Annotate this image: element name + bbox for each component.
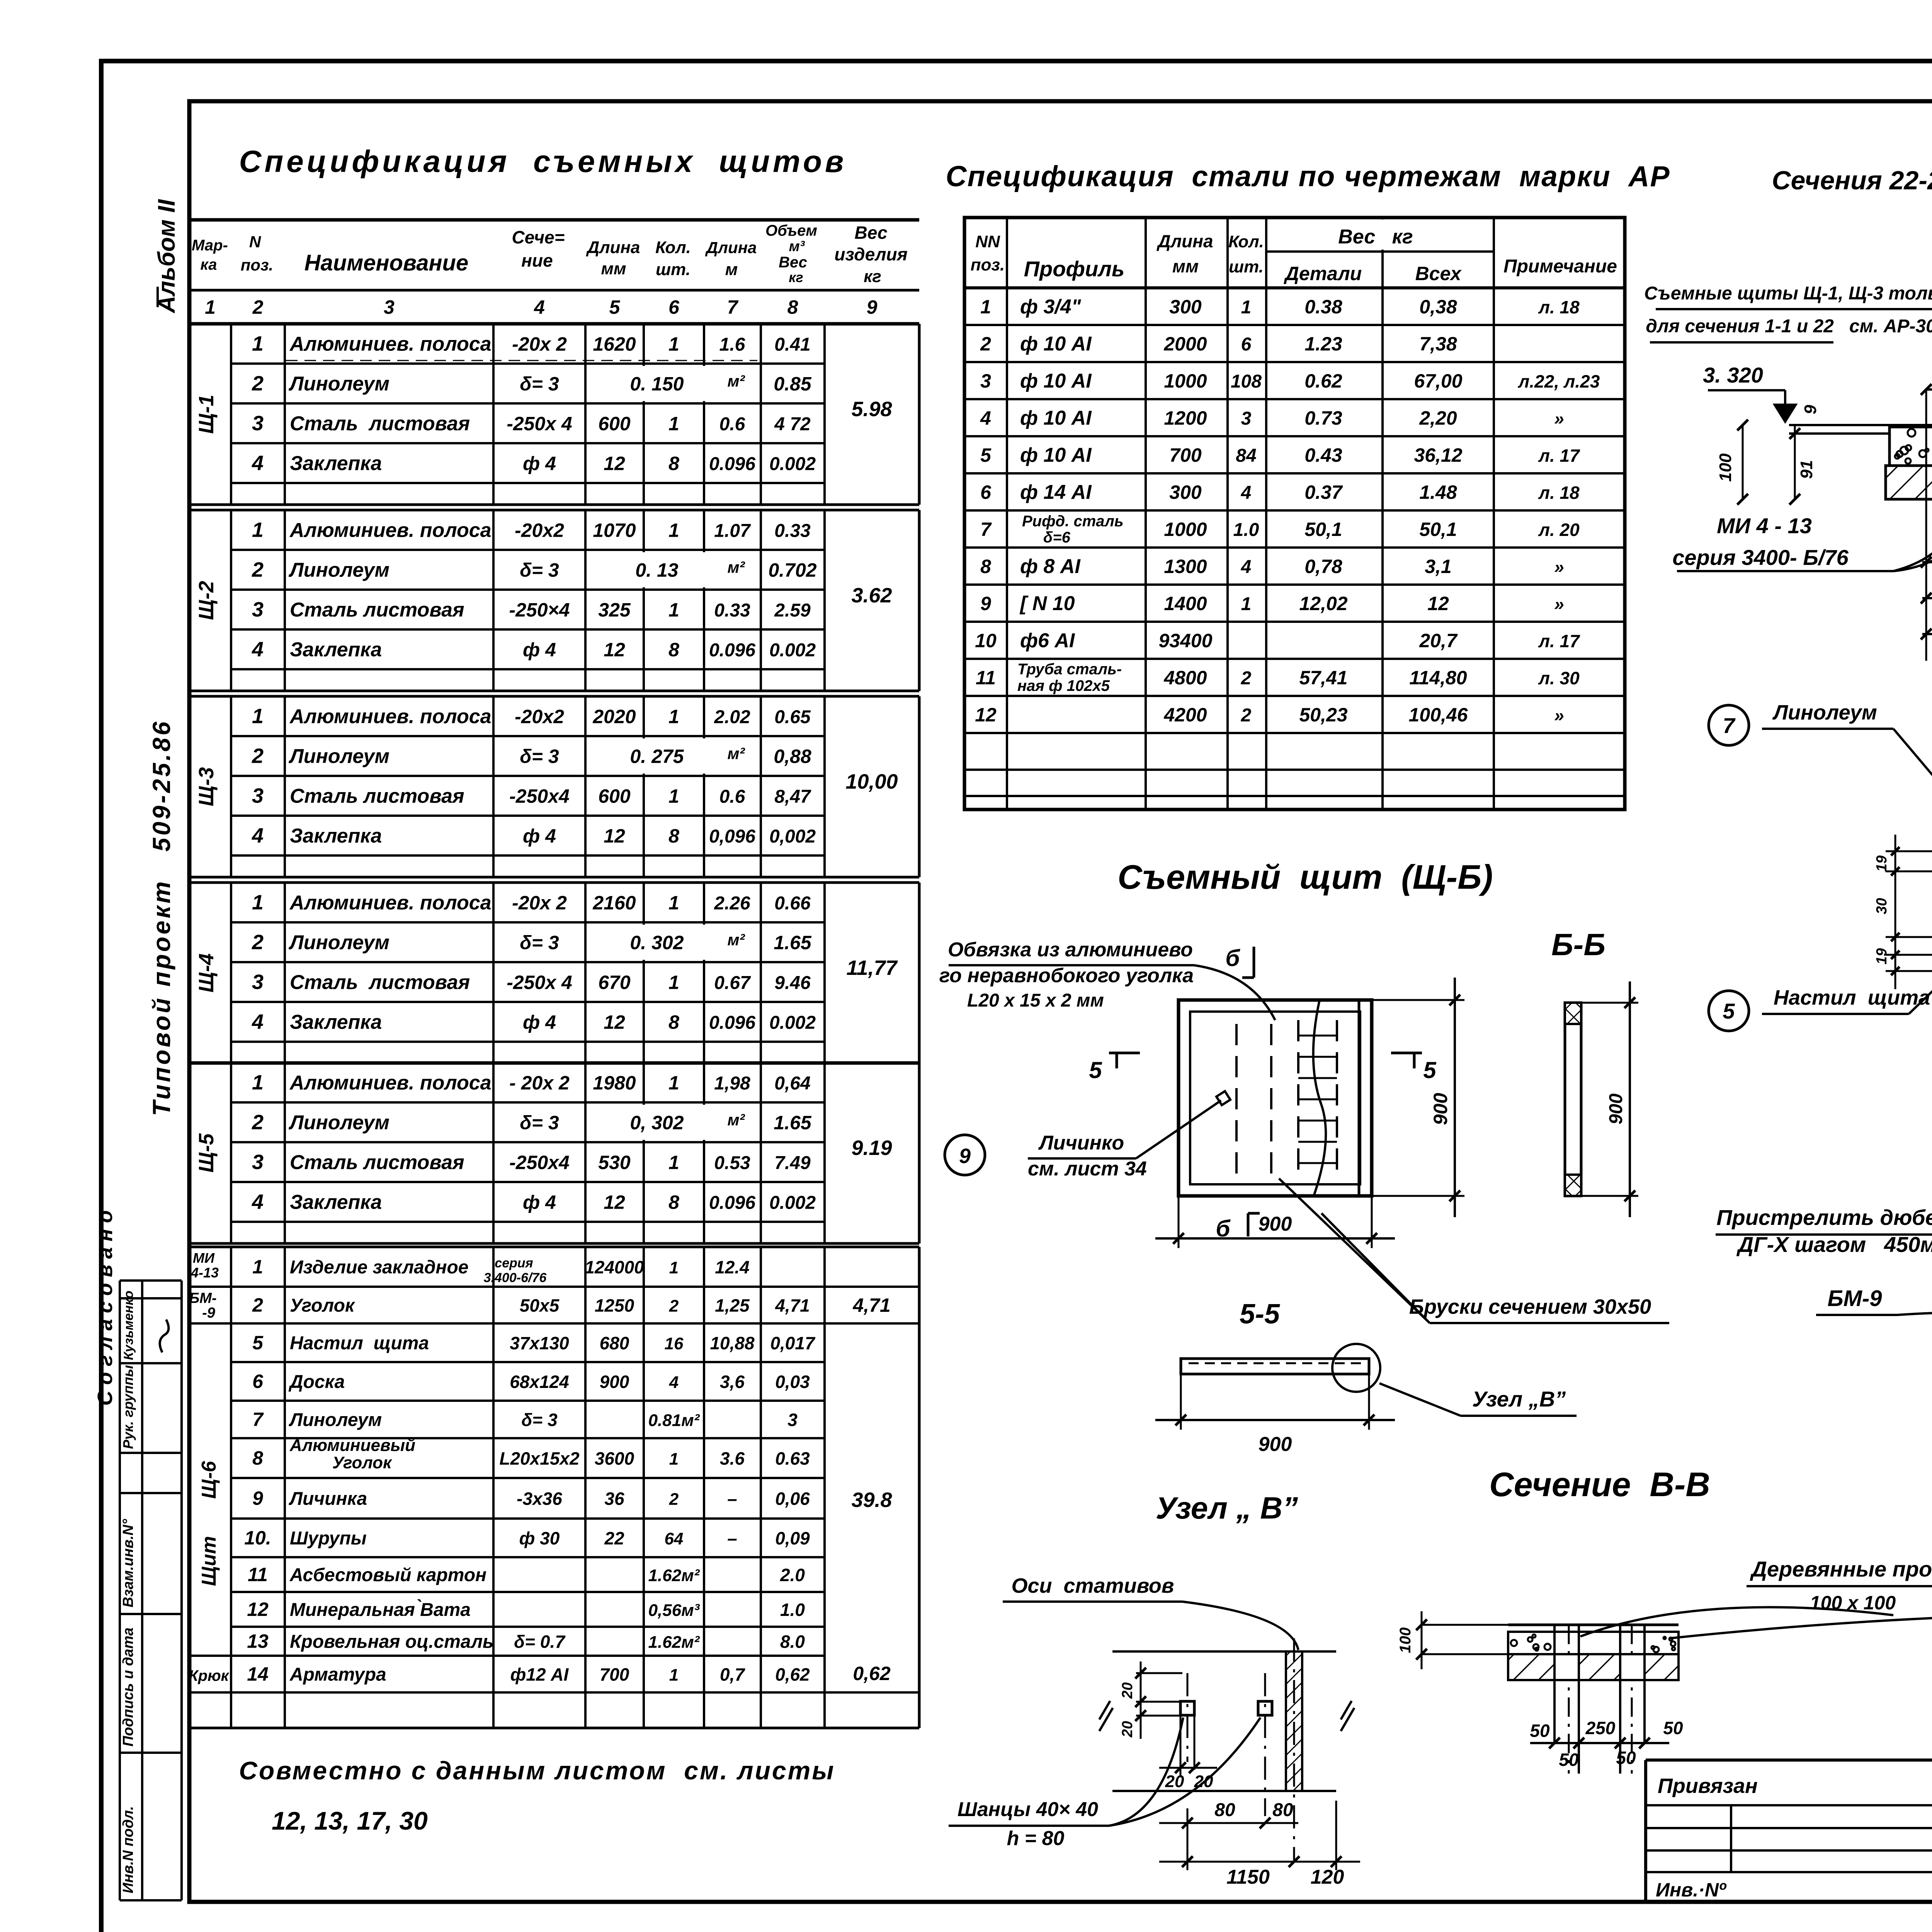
svg-text:1: 1	[668, 520, 679, 541]
svg-text:–: –	[727, 1528, 737, 1548]
svg-text:Сече=: Сече=	[512, 227, 565, 247]
svg-text:Спецификация съемных щитов: Спецификация съемных щитов	[239, 144, 847, 179]
svg-text:1150: 1150	[1226, 1866, 1270, 1888]
svg-text:0. 275: 0. 275	[630, 746, 684, 767]
svg-text:5: 5	[1089, 1057, 1102, 1083]
svg-text:Съемный щит (Щ-Б): Съемный щит (Щ-Б)	[1117, 858, 1493, 896]
svg-text:-250х 4: -250х 4	[507, 972, 572, 993]
svg-text:5: 5	[609, 296, 621, 318]
svg-text:1: 1	[980, 296, 991, 318]
svg-text:2: 2	[252, 931, 264, 954]
svg-text:1.0: 1.0	[780, 1600, 805, 1620]
svg-text:-20х 2: -20х 2	[512, 333, 567, 355]
svg-text:250: 250	[1585, 1718, 1616, 1738]
svg-text:1: 1	[669, 1666, 679, 1685]
svg-text:2: 2	[252, 1111, 264, 1134]
svg-text:1: 1	[668, 1072, 679, 1094]
svg-text:10.: 10.	[244, 1527, 271, 1549]
оси стативов drawing	[949, 1574, 1360, 1888]
svg-text:900: 900	[600, 1372, 629, 1392]
svg-text:100,46: 100,46	[1409, 704, 1468, 726]
svg-text:1: 1	[668, 413, 679, 435]
svg-text:100: 100	[1716, 453, 1735, 482]
svg-text:ф 10 АI: ф 10 АI	[1020, 407, 1092, 429]
svg-text:300: 300	[1169, 296, 1202, 318]
svg-text:9: 9	[867, 296, 878, 318]
svg-text:б: б	[1225, 945, 1240, 971]
svg-text:2: 2	[252, 372, 264, 395]
svg-text:0.41: 0.41	[774, 335, 810, 355]
svg-text:1: 1	[668, 786, 679, 807]
table block Щ-4	[231, 921, 825, 923]
svg-text:7.49: 7.49	[774, 1153, 811, 1173]
margin stamp boxes	[120, 1279, 182, 1282]
svg-text:м²: м²	[727, 931, 745, 949]
svg-text:1.07: 1.07	[714, 521, 751, 541]
svg-text:1070: 1070	[593, 520, 636, 541]
svg-text:3: 3	[1241, 408, 1252, 429]
svg-text:л.22, л.23: л.22, л.23	[1518, 371, 1600, 391]
svg-text:8: 8	[980, 556, 991, 577]
svg-text:ф 14 АI: ф 14 АI	[1020, 481, 1092, 503]
svg-text:Настил щита: Настил щита	[290, 1333, 429, 1354]
svg-text:12: 12	[247, 1599, 269, 1620]
svg-text:600: 600	[598, 786, 631, 807]
svg-text:Вес: Вес	[855, 223, 888, 243]
svg-text:900: 900	[1259, 1213, 1292, 1235]
svg-text:см. лист 34: см. лист 34	[1028, 1158, 1147, 1180]
svg-text:Наименование: Наименование	[304, 250, 468, 276]
section 22-22 drawing	[1644, 283, 1932, 661]
svg-text:0.096: 0.096	[709, 1193, 755, 1213]
svg-text:шт.: шт.	[1229, 257, 1264, 276]
svg-text:0,017: 0,017	[770, 1333, 816, 1353]
svg-text:36,12: 36,12	[1414, 444, 1462, 466]
svg-text:1.65: 1.65	[774, 932, 812, 954]
svg-text:Деревянные пробки: Деревянные пробки	[1750, 1557, 1932, 1581]
svg-text:δ= 3: δ= 3	[520, 746, 559, 767]
svg-text:8: 8	[252, 1447, 263, 1469]
svg-text:12: 12	[604, 1012, 625, 1033]
svg-text:124000: 124000	[585, 1257, 644, 1277]
svg-text:6: 6	[980, 481, 992, 503]
svg-text:м²: м²	[727, 745, 745, 763]
svg-text:Объем: Объем	[765, 222, 817, 239]
svg-text:700: 700	[600, 1665, 629, 1685]
svg-text:0.33: 0.33	[774, 521, 811, 541]
svg-text:Пристрелить дюбелями: Пристрелить дюбелями	[1716, 1205, 1932, 1230]
svg-text:0,56м³: 0,56м³	[648, 1601, 700, 1620]
svg-text:50,1: 50,1	[1419, 519, 1457, 540]
svg-text:Профиль: Профиль	[1024, 257, 1125, 281]
svg-text:3: 3	[980, 370, 991, 392]
svg-text:Инв.N подл.: Инв.N подл.	[120, 1806, 136, 1893]
svg-text:Рук. группы: Рук. группы	[120, 1365, 136, 1449]
svg-text:0,06: 0,06	[775, 1489, 810, 1509]
svg-text:Линолеум: Линолеум	[288, 745, 389, 768]
svg-text:4: 4	[1241, 483, 1252, 503]
svg-text:2.0: 2.0	[780, 1565, 805, 1585]
svg-text:20: 20	[1165, 1772, 1184, 1791]
svg-text:кг: кг	[864, 267, 881, 286]
table block Щ-2	[231, 549, 825, 551]
svg-text:50: 50	[1559, 1750, 1579, 1770]
svg-text:50: 50	[1663, 1718, 1683, 1738]
table block Щ-5	[231, 1101, 825, 1104]
svg-text:1: 1	[252, 891, 264, 914]
svg-text:Бруски сечением 30х50: Бруски сечением 30х50	[1409, 1295, 1651, 1318]
svg-text:600: 600	[598, 413, 631, 435]
svg-text:δ=6: δ=6	[1043, 529, 1071, 546]
svg-text:67,00: 67,00	[1414, 370, 1462, 392]
svg-text:мм: мм	[1172, 256, 1199, 276]
svg-text:2: 2	[252, 1294, 263, 1316]
svg-text:3: 3	[252, 784, 264, 808]
svg-text:»: »	[1554, 594, 1564, 614]
svg-text:кг: кг	[789, 269, 803, 285]
svg-text:Типовой проект 509-25.86: Типовой проект 509-25.86	[148, 719, 175, 1116]
svg-text:Заклепка: Заклепка	[290, 1011, 382, 1034]
svg-text:1: 1	[1241, 297, 1252, 318]
svg-text:2.26: 2.26	[714, 893, 750, 914]
svg-text:МИ 4 - 13: МИ 4 - 13	[1717, 514, 1812, 538]
svg-text:16: 16	[665, 1334, 684, 1353]
svg-text:Сечение В-В: Сечение В-В	[1489, 1465, 1710, 1503]
svg-text:3: 3	[252, 971, 264, 994]
svg-text:4: 4	[252, 1190, 264, 1214]
svg-text:0,09: 0,09	[775, 1528, 810, 1548]
svg-text:0.67: 0.67	[714, 973, 751, 993]
svg-text:3600: 3600	[595, 1449, 634, 1469]
svg-text:1.23: 1.23	[1304, 333, 1342, 355]
svg-text:Алюминиев. полоса: Алюминиев. полоса	[289, 519, 492, 542]
svg-text:4: 4	[534, 296, 545, 318]
svg-text:Заклепка: Заклепка	[290, 639, 382, 661]
svg-text:ф6 АI: ф6 АI	[1020, 629, 1075, 652]
svg-text:Алюминиев. полоса: Алюминиев. полоса	[289, 892, 492, 914]
svg-text:ф 10 АI: ф 10 АI	[1020, 444, 1092, 466]
svg-text:Щ-2: Щ-2	[195, 581, 218, 620]
svg-text:530: 530	[598, 1152, 631, 1173]
svg-text:0,03: 0,03	[775, 1372, 810, 1392]
svg-text:1,25: 1,25	[715, 1296, 750, 1316]
svg-text:Вес кг: Вес кг	[1338, 226, 1413, 248]
table block Щ-3	[231, 735, 825, 737]
svg-text:L20 х 15 х 2 мм: L20 х 15 х 2 мм	[967, 990, 1104, 1011]
svg-text:93400: 93400	[1158, 630, 1212, 651]
svg-text:3: 3	[384, 296, 395, 318]
svg-text:Арматура: Арматура	[289, 1665, 386, 1685]
svg-text:Уголок: Уголок	[290, 1296, 355, 1316]
svg-text:3.6: 3.6	[720, 1449, 745, 1469]
svg-text:5: 5	[252, 1332, 264, 1354]
svg-text:1.48: 1.48	[1419, 481, 1457, 503]
svg-text:30: 30	[1874, 898, 1890, 914]
svg-text:8: 8	[668, 825, 679, 847]
svg-text:для сечения 1-1 и 22 см. АР-: для сечения 1-1 и 22 см. АР-30	[1646, 316, 1932, 337]
svg-text:ние: ние	[521, 250, 553, 270]
svg-text:50: 50	[1530, 1721, 1550, 1741]
svg-text:Заклепка: Заклепка	[290, 452, 382, 475]
svg-text:5: 5	[980, 444, 992, 466]
svg-text:12: 12	[975, 704, 997, 726]
svg-text:8.0: 8.0	[780, 1632, 805, 1652]
svg-text:Алюминиев. полоса: Алюминиев. полоса	[289, 333, 492, 355]
svg-text:поз.: поз.	[971, 255, 1005, 274]
svg-text:ф 4: ф 4	[523, 825, 556, 847]
svg-text:4,71: 4,71	[852, 1294, 890, 1316]
svg-text:1000: 1000	[1164, 370, 1207, 392]
svg-text:84: 84	[1236, 446, 1256, 466]
svg-text:36: 36	[604, 1489, 624, 1509]
svg-text:0,78: 0,78	[1304, 556, 1342, 577]
svg-text:2,20: 2,20	[1419, 407, 1457, 429]
svg-text:11,77: 11,77	[846, 956, 898, 980]
svg-text:1400: 1400	[1164, 593, 1207, 614]
svg-text:Изделие закладное: Изделие закладное	[290, 1257, 469, 1278]
svg-text:0.37: 0.37	[1304, 481, 1343, 503]
svg-text:0. 302: 0. 302	[630, 932, 684, 954]
svg-text:12: 12	[1427, 593, 1449, 614]
svg-text:0,88: 0,88	[774, 746, 811, 767]
svg-text:0.002: 0.002	[769, 640, 816, 661]
svg-text:0,002: 0,002	[769, 827, 816, 847]
svg-text:57,41: 57,41	[1299, 667, 1347, 689]
svg-text:1.6: 1.6	[719, 335, 745, 355]
svg-text:ДГ-Х шагом 450мм: ДГ-Х шагом 450мм	[1736, 1232, 1932, 1257]
svg-text:80: 80	[1272, 1800, 1293, 1820]
svg-text:20,7: 20,7	[1419, 630, 1458, 651]
svg-text:20: 20	[1119, 1721, 1136, 1738]
svg-text:Сталь листовая: Сталь листовая	[290, 413, 470, 435]
svg-text:л. 18: л. 18	[1538, 297, 1580, 317]
svg-text:12,02: 12,02	[1299, 593, 1347, 614]
svg-text:1200: 1200	[1164, 407, 1207, 429]
svg-text:Асбестовый картон: Асбестовый картон	[289, 1565, 486, 1585]
svg-text:2: 2	[980, 333, 991, 355]
svg-text:Инв.·Nº: Инв.·Nº	[1656, 1879, 1727, 1901]
svg-text:1.62м²: 1.62м²	[648, 1566, 700, 1585]
svg-text:2: 2	[669, 1490, 679, 1509]
svg-text:0.38: 0.38	[1304, 296, 1342, 318]
svg-text:4: 4	[1241, 557, 1252, 577]
svg-text:0.65: 0.65	[774, 707, 811, 728]
svg-text:1: 1	[668, 599, 679, 621]
svg-text:3.400-6/76: 3.400-6/76	[484, 1270, 547, 1285]
svg-text:Подпись и дата: Подпись и дата	[120, 1628, 136, 1747]
5-5 section	[1155, 1299, 1577, 1456]
svg-text:50: 50	[1616, 1748, 1636, 1768]
svg-text:Взам.инв.N°: Взам.инв.N°	[120, 1519, 136, 1607]
svg-text:12: 12	[604, 825, 625, 847]
svg-text:114,80: 114,80	[1409, 667, 1467, 689]
svg-text:- 20х 2: - 20х 2	[509, 1072, 570, 1094]
svg-text:Труба сталь-: Труба сталь-	[1017, 661, 1122, 678]
svg-text:3. 320: 3. 320	[1703, 363, 1763, 387]
svg-text:0.6: 0.6	[719, 787, 745, 807]
сечение 24-24 drawing	[1716, 1205, 1932, 1612]
svg-text:8: 8	[668, 639, 679, 661]
svg-text:L20х15х2: L20х15х2	[499, 1449, 580, 1469]
svg-text:Совместно с данным листом см.: Совместно с данным листом см. листы	[239, 1756, 835, 1785]
svg-text:Сталь листовая: Сталь листовая	[290, 785, 464, 808]
svg-text:б: б	[1216, 1216, 1231, 1242]
svg-text:2.59: 2.59	[774, 600, 811, 621]
svg-text:БМ-: БМ-	[189, 1290, 216, 1306]
svg-text:-250х 4: -250х 4	[507, 413, 572, 435]
svg-text:Съемные щиты Щ-1, Щ-3 только: Съемные щиты Щ-1, Щ-3 только	[1644, 283, 1932, 304]
svg-text:1: 1	[252, 519, 264, 542]
панель Щ-Б plan	[939, 939, 1669, 1323]
svg-text:9: 9	[1801, 405, 1820, 414]
svg-text:Линолеум: Линолеум	[288, 932, 389, 954]
svg-text:1: 1	[668, 892, 679, 914]
svg-text:11: 11	[976, 667, 996, 689]
svg-text:2: 2	[1241, 668, 1252, 689]
svg-text:Шанцы 40× 40: Шанцы 40× 40	[957, 1798, 1098, 1821]
svg-text:900: 900	[1259, 1433, 1292, 1456]
svg-text:Спецификация стали по чертежа: Спецификация стали по чертежам марки АР	[946, 160, 1670, 192]
svg-text:0.33: 0.33	[714, 600, 750, 621]
svg-text:900: 900	[1430, 1093, 1451, 1125]
svg-text:-20х 2: -20х 2	[512, 892, 567, 914]
svg-text:0,7: 0,7	[720, 1665, 745, 1685]
svg-text:4-13: 4-13	[190, 1265, 219, 1281]
svg-text:1: 1	[252, 1256, 263, 1278]
svg-text:2: 2	[252, 745, 264, 768]
svg-text:Щ-1: Щ-1	[195, 395, 218, 434]
svg-text:3: 3	[252, 598, 264, 621]
svg-text:δ= 3: δ= 3	[520, 932, 559, 954]
svg-text:Вес: Вес	[779, 254, 807, 271]
svg-text:4 72: 4 72	[774, 414, 811, 435]
svg-text:Сталь листовая: Сталь листовая	[290, 971, 470, 994]
svg-text:1: 1	[669, 1450, 679, 1469]
svg-text:7: 7	[252, 1409, 264, 1430]
svg-text:1: 1	[668, 706, 679, 728]
svg-text:ф12 АI: ф12 АI	[510, 1665, 569, 1685]
svg-text:л. 17: л. 17	[1538, 631, 1580, 651]
svg-text:м²: м²	[727, 1111, 745, 1129]
svg-text:Линолеум: Линолеум	[288, 559, 389, 582]
svg-text:Кровельная оц.сталь: Кровельная оц.сталь	[290, 1632, 494, 1652]
svg-text:л. 17: л. 17	[1538, 446, 1580, 466]
svg-text:8,47: 8,47	[774, 787, 811, 807]
svg-text:-250×4: -250×4	[509, 599, 570, 621]
svg-text:300: 300	[1169, 481, 1202, 503]
svg-text:Линолеум: Линолеум	[288, 1112, 389, 1134]
svg-text:м³: м³	[789, 238, 805, 255]
svg-text:7,38: 7,38	[1419, 333, 1457, 355]
svg-text:5-5: 5-5	[1240, 1299, 1280, 1330]
svg-text:50,23: 50,23	[1299, 704, 1347, 726]
svg-text:700: 700	[1169, 444, 1202, 466]
svg-text:»: »	[1554, 408, 1564, 429]
svg-text:Линолеум: Линолеум	[289, 1410, 382, 1430]
svg-text:13: 13	[247, 1631, 269, 1652]
svg-text:0.702: 0.702	[768, 560, 816, 581]
svg-text:ф 4: ф 4	[523, 453, 556, 474]
svg-text:δ= 3: δ= 3	[520, 560, 559, 581]
svg-text:325: 325	[598, 599, 631, 621]
svg-text:10: 10	[975, 630, 997, 651]
svg-text:Алюминиевый: Алюминиевый	[289, 1436, 415, 1455]
svg-text:м: м	[725, 260, 738, 279]
svg-text:108: 108	[1231, 371, 1262, 392]
svg-text:20: 20	[1119, 1682, 1136, 1699]
svg-text:Примечание: Примечание	[1503, 256, 1617, 277]
svg-text:Алюминиев. полоса: Алюминиев. полоса	[289, 1072, 492, 1094]
svg-text:4: 4	[252, 824, 264, 847]
svg-text:1000: 1000	[1164, 519, 1207, 540]
svg-text:поз.: поз.	[241, 256, 273, 274]
svg-text:8: 8	[668, 1192, 679, 1213]
svg-text:9: 9	[980, 593, 991, 614]
svg-text:1.65: 1.65	[774, 1112, 812, 1134]
svg-text:6: 6	[1241, 334, 1252, 355]
svg-text:900: 900	[1606, 1094, 1626, 1124]
svg-text:0,62: 0,62	[853, 1663, 891, 1684]
svg-text:0.85: 0.85	[774, 373, 812, 395]
svg-text:-9: -9	[202, 1305, 215, 1321]
svg-text:Сечения 22-22; 23-23; 25-25: Сечения 22-22; 23-23; 25-25	[1772, 166, 1932, 195]
svg-text:Шурупы: Шурупы	[290, 1528, 367, 1549]
table block МИ/БМ/Щ-6/Крюк	[189, 1246, 919, 1248]
svg-text:5: 5	[1423, 1057, 1437, 1083]
svg-text:3,1: 3,1	[1425, 556, 1452, 577]
svg-text:NN: NN	[975, 232, 1000, 251]
svg-text:Крюк: Крюк	[189, 1667, 230, 1684]
svg-text:11: 11	[248, 1564, 268, 1585]
svg-text:ф 30: ф 30	[519, 1528, 560, 1548]
svg-text:7: 7	[1723, 713, 1736, 738]
svg-text:Щ-5: Щ-5	[195, 1133, 218, 1172]
svg-text:0.096: 0.096	[709, 1013, 755, 1033]
svg-text:1.0: 1.0	[1233, 520, 1259, 540]
svg-text:50х5: 50х5	[520, 1296, 560, 1316]
svg-text:л. 18: л. 18	[1538, 483, 1580, 503]
svg-text:Щ-4: Щ-4	[195, 953, 218, 992]
svg-text:0.096: 0.096	[709, 640, 755, 661]
svg-text:4: 4	[669, 1373, 679, 1392]
svg-text:1: 1	[205, 296, 216, 318]
svg-text:2000: 2000	[1163, 333, 1207, 355]
svg-text:80: 80	[1214, 1800, 1235, 1820]
svg-text:Узел „В”: Узел „В”	[1472, 1387, 1566, 1411]
svg-text:3: 3	[252, 1151, 264, 1174]
svg-text:9.19: 9.19	[851, 1136, 892, 1160]
svg-text:δ= 3: δ= 3	[521, 1410, 558, 1430]
svg-text:120: 120	[1311, 1866, 1344, 1888]
svg-text:1.62м²: 1.62м²	[648, 1633, 700, 1652]
svg-text:22: 22	[604, 1528, 624, 1548]
svg-text:Мар-: Мар-	[192, 237, 228, 254]
привязан block	[1646, 1760, 1932, 1902]
svg-text:δ= 0.7: δ= 0.7	[514, 1632, 566, 1652]
svg-text:91: 91	[1797, 460, 1816, 479]
svg-text:ф 4: ф 4	[523, 1012, 556, 1033]
svg-text:-250х4: -250х4	[509, 1152, 570, 1173]
svg-text:Оси стативов: Оси стативов	[1012, 1574, 1174, 1597]
svg-text:шт.: шт.	[656, 260, 690, 279]
svg-text:0,62: 0,62	[775, 1665, 810, 1685]
svg-text:7: 7	[980, 519, 992, 540]
svg-text:С о г л а с о в а н о: С о г л а с о в а н о	[94, 1210, 117, 1406]
svg-text:Минеральная ̀Вата: Минеральная ̀Вата	[290, 1599, 471, 1620]
svg-text:ф 4: ф 4	[523, 1192, 556, 1213]
svg-text:0.43: 0.43	[1304, 444, 1342, 466]
svg-text:3: 3	[252, 412, 264, 435]
